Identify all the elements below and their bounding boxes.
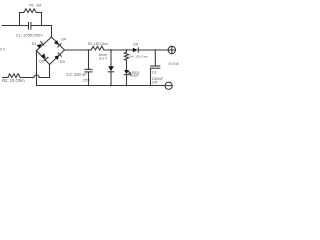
diode D4 (54, 40, 61, 47)
svg-text:C1: 105K/250V: C1: 105K/250V (16, 33, 43, 38)
svg-text:6.2 V: 6.2 V (99, 57, 108, 61)
wire bridge left corner down to ground rail (36, 51, 38, 86)
capacitor C3 (151, 50, 160, 86)
svg-text:R2: 10 Ohm: R2: 10 Ohm (2, 78, 25, 83)
bridge edge B-R (50, 50, 65, 65)
label C3 value (152, 71, 163, 85)
wire D5 to output terminal (138, 49, 168, 51)
bridge edge T-L (37, 37, 52, 51)
bridge edge T-R (52, 37, 65, 50)
label C2 value (66, 72, 90, 82)
wire R3 to D5 (104, 49, 133, 51)
svg-text:D2: D2 (39, 60, 44, 64)
wire hop over ground wire (34, 75, 39, 78)
wire R2 to hop (21, 77, 34, 79)
svg-text:D1: D1 (32, 42, 37, 46)
svg-text:5V/1W: 5V/1W (168, 62, 179, 66)
label zener (98, 53, 108, 61)
LED red indicator (124, 70, 131, 75)
label LED (132, 71, 140, 78)
junction C3 node (154, 49, 156, 51)
svg-text:30 V: 30 V (0, 48, 6, 52)
junction zener node (110, 49, 112, 51)
junction C2 node (88, 49, 90, 51)
wire LED to rail (126, 75, 128, 86)
diode D3 (54, 53, 61, 60)
junction LED node (126, 49, 128, 51)
bridge edge L-B (37, 51, 50, 65)
resistor R4 (124, 50, 128, 70)
capacitor C2 (85, 50, 92, 86)
resistor R2 (3, 74, 22, 78)
svg-text:25V: 25V (83, 77, 90, 82)
svg-text:R4: 150 Ohm: R4: 150 Ohm (130, 54, 149, 58)
wire C1 to bridge top corner (31, 26, 51, 37)
svg-text:C3:: C3: (152, 71, 157, 75)
terminal negative output (165, 82, 172, 89)
resistor R1 (20, 9, 42, 26)
capacitor C1 (29, 23, 31, 30)
diode D1 (37, 42, 44, 49)
svg-text:D3: D3 (60, 60, 65, 64)
svg-text:C2: 220 uF: C2: 220 uF (66, 72, 87, 77)
svg-text:R3: 180 Ohm: R3: 180 Ohm (88, 42, 108, 46)
svg-text:R1: 1M: R1: 1M (29, 3, 41, 7)
wire top AC input (2, 25, 28, 27)
diode D5 (133, 48, 139, 52)
svg-text:D4: D4 (61, 38, 66, 42)
resistor R3 (91, 46, 104, 50)
wire bridge + output to C2 node (65, 49, 92, 51)
wire hop to bridge bottom corner riser (39, 65, 49, 78)
svg-text:10V: 10V (152, 81, 159, 85)
wire ground rail (37, 85, 166, 87)
zener diode 6.2V (108, 50, 114, 86)
diode D2 (41, 53, 48, 60)
svg-text:LED: LED (132, 74, 139, 78)
svg-text:D5: D5 (133, 42, 138, 46)
terminal positive output (168, 46, 175, 53)
